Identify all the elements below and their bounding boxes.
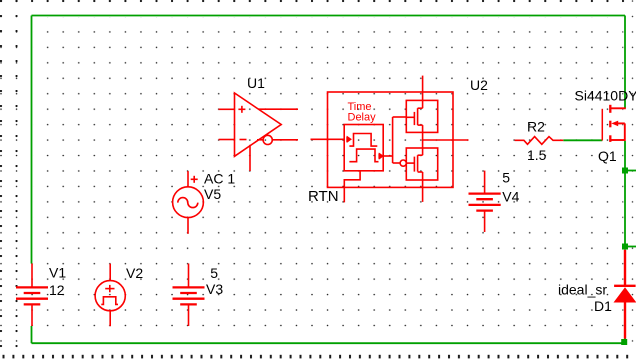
resistor R2	[515, 137, 564, 145]
svg-text:V2: V2	[126, 265, 143, 281]
time delay block of U2	[344, 125, 383, 171]
wire stub right at node A	[625, 170, 636, 172]
svg-text:ideal_sr: ideal_sr	[558, 282, 607, 298]
wire R2 to Q1 gate	[563, 139, 602, 141]
svg-text:AC 1: AC 1	[204, 171, 235, 187]
wire top border	[32, 15, 626, 17]
junction node B	[622, 244, 628, 250]
svg-text:1.5: 1.5	[527, 147, 547, 163]
diode D1	[614, 250, 636, 339]
input pin arrow	[347, 137, 351, 142]
RTN pin wire	[344, 171, 360, 203]
gate branch wires inside U2	[393, 117, 407, 163]
wire V1 bottom to bottom border	[31, 326, 33, 343]
battery V1	[16, 264, 48, 327]
wire stub right at node B	[625, 246, 636, 248]
svg-text:5: 5	[210, 265, 218, 281]
svg-text:R2: R2	[527, 119, 545, 135]
svg-text:RTN: RTN	[308, 188, 339, 205]
junction node A	[622, 168, 628, 174]
svg-text:D1: D1	[594, 298, 612, 314]
junction bottom right corner	[621, 339, 627, 345]
output pin arrow	[379, 153, 383, 158]
svg-text:V1: V1	[49, 265, 66, 281]
svg-text:U1: U1	[247, 75, 265, 91]
mosfet Q1	[602, 105, 626, 142]
svg-text:V3: V3	[206, 281, 223, 297]
inverter bubble	[400, 160, 406, 166]
upper mosfet box of U2	[406, 100, 437, 132]
pulse source V2	[95, 264, 125, 327]
lower mosfet box of U2	[406, 148, 437, 180]
AC source V5	[173, 171, 204, 234]
svg-text:V4: V4	[502, 189, 519, 205]
svg-text:12: 12	[49, 282, 65, 298]
wire left border (top segment to V1)	[31, 16, 33, 264]
svg-text:5: 5	[502, 170, 510, 186]
battery V3	[173, 264, 205, 327]
U2 output wire	[423, 139, 469, 141]
wire right border to Q1 drain	[624, 16, 626, 109]
svg-text:U2: U2	[470, 77, 488, 93]
half-bridge vertical wire	[422, 76, 424, 202]
svg-text:Si4410DY: Si4410DY	[575, 87, 636, 103]
battery V4	[469, 171, 501, 232]
delay output wire	[383, 155, 392, 157]
op-amp U1	[219, 93, 298, 171]
input wire of U2	[311, 138, 345, 140]
svg-text:V5: V5	[204, 186, 221, 202]
subcircuit U2 box	[328, 92, 454, 187]
wire Q1 source down right edge	[624, 141, 626, 250]
wire bottom border	[32, 342, 626, 344]
svg-text:Q1: Q1	[598, 148, 617, 164]
wire D1 bottom to border corner	[624, 339, 626, 344]
Q1 arrow	[611, 121, 618, 127]
svg-text:Delay: Delay	[348, 112, 377, 124]
